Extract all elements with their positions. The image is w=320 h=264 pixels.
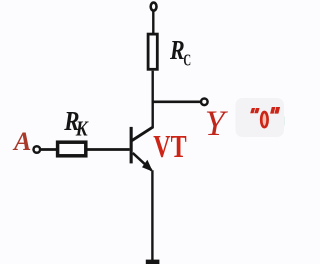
svg-text:VT: VT <box>153 130 186 165</box>
svg-text:A: A <box>12 127 31 156</box>
svg-text:C: C <box>183 51 191 70</box>
svg-text:K: K <box>75 118 90 141</box>
svg-text:R: R <box>169 36 185 66</box>
